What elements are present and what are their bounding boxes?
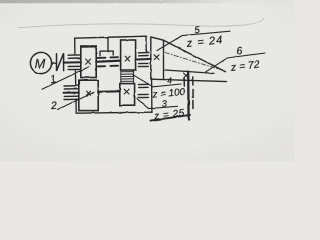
leader for label 1 [42, 67, 89, 89]
housing frame left upper [74, 38, 76, 54]
hanger from frame to mid bearing [107, 37, 109, 51]
wire: shaft II left segment [64, 92, 79, 94]
gear 3 x-mark [125, 56, 130, 61]
housing frame right upper [145, 36, 147, 52]
wire: shaft II middle segment [98, 90, 119, 93]
small x-mark on vertical shaft [184, 73, 189, 78]
gear 4 x-mark [124, 89, 129, 94]
gear 2 x-mark [87, 91, 91, 95]
bearing left, shaft I [68, 55, 80, 70]
vertical output shaft [187, 72, 190, 120]
wire: motor shaft stub [52, 62, 57, 64]
housing frame left middle [74, 71, 76, 86]
label 6 shelf [227, 53, 265, 58]
housing frame left lower [75, 99, 77, 113]
bevel cone bottom edge [151, 79, 227, 81]
fold line (scan artifact) [18, 18, 264, 28]
label 5 shelf [182, 31, 230, 35]
gear 1 x-mark [86, 59, 91, 64]
housing frame bottom [76, 112, 152, 113]
bearing right, shaft I [138, 53, 148, 67]
gear 4 block bottom (rect) [120, 84, 135, 106]
vertical shaft bearing bars [184, 77, 193, 109]
mid bearing bars A [98, 57, 118, 66]
label 5 leader [157, 36, 182, 51]
coupling (zigzag) [57, 53, 64, 71]
label 6 leader [205, 58, 227, 72]
bearing right, shaft II [138, 84, 148, 97]
bevel pinion x-mark [154, 55, 159, 60]
inner mesh line [164, 70, 214, 74]
motor M1 circle [30, 52, 51, 73]
wire: shaft I to bevel unit [136, 58, 151, 61]
bevel cone hypotenuse [164, 40, 226, 72]
cone axis (dash-dot) [165, 53, 220, 70]
underline below z=25 [151, 115, 191, 121]
svg-text:2: 2 [49, 100, 57, 113]
label 3 leader [137, 99, 149, 109]
label 4 shelf [153, 84, 181, 87]
wire: shaft I through mid bearings [96, 61, 120, 62]
bevel pinion rect [151, 37, 164, 79]
bearing left, shaft II [64, 86, 78, 100]
mid bearing bracket [100, 51, 113, 56]
svg-text:M: M [35, 56, 46, 71]
leader for label 2 [58, 92, 95, 109]
label 4 leader [133, 75, 153, 87]
housing frame top [75, 36, 147, 38]
gear 1 block (rect) [81, 46, 96, 78]
svg-text:3: 3 [161, 98, 167, 108]
support post below bevel rect [151, 78, 153, 112]
gear 3 block top (rect) [121, 40, 136, 70]
splined section (hatch) [121, 70, 134, 84]
wire: input shaft to housing [64, 61, 81, 63]
scan edge band at top [0, 0, 295, 3]
gear 2 block (rect) [79, 80, 98, 110]
label 3 shelf [149, 106, 178, 108]
paper background [0, 0, 295, 161]
